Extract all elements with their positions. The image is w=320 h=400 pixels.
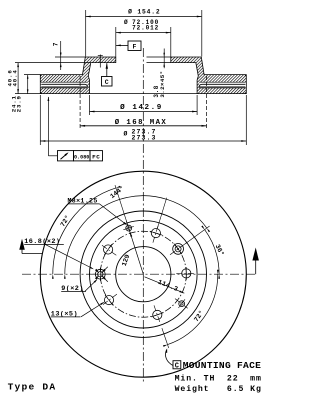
svg-text:273.3: 273.3 [131,135,156,142]
svg-text:40.4: 40.4 [12,69,19,86]
svg-text:23.9: 23.9 [16,95,23,112]
svg-text:7: 7 [53,42,60,46]
svg-text:Ø 168 MAX: Ø 168 MAX [115,118,167,127]
svg-text:Ø 142.9: Ø 142.9 [120,103,163,112]
svg-text:Ø 154.2: Ø 154.2 [128,7,160,15]
svg-text:Weight 6.5 Kg: Weight 6.5 Kg [175,384,262,394]
svg-text:9(×2): 9(×2) [61,285,84,293]
svg-text:FC: FC [92,154,100,161]
svg-text:0.080: 0.080 [74,155,89,161]
svg-text:Ø: Ø [124,19,128,26]
svg-text:13(×5): 13(×5) [51,311,78,319]
svg-text:C: C [105,79,109,86]
svg-text:Min. TH 22 mm: Min. TH 22 mm [175,374,262,384]
svg-text:C: C [175,362,179,370]
svg-text:72.012: 72.012 [132,25,159,32]
svg-text:F: F [133,44,137,51]
svg-text:16.8(×2): 16.8(×2) [24,238,60,246]
svg-text:MOUNTING FACE: MOUNTING FACE [183,360,261,371]
svg-text:Type DA: Type DA [8,382,57,393]
svg-text:Ø: Ø [124,130,128,138]
